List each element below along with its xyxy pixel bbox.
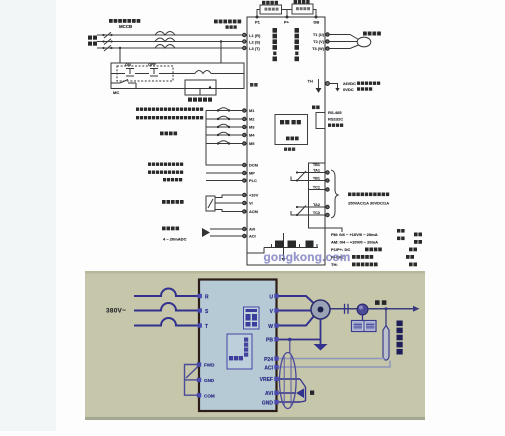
svg-text:P24: P24 — [264, 357, 273, 363]
terminal DB — [315, 16, 318, 19]
pin labels DI — [249, 108, 258, 183]
svg-text:L2 (S): L2 (S) — [249, 40, 261, 45]
pot terminals — [243, 193, 246, 213]
relay pin labels — [313, 163, 320, 215]
label 外送 — [375, 300, 386, 305]
svg-text:TB1: TB1 — [313, 163, 320, 167]
contactor coil MC — [195, 71, 211, 74]
svg-text:GND: GND — [204, 378, 215, 383]
left margin column — [0, 0, 56, 431]
terminal P1 — [256, 16, 259, 19]
svg-text:AM: 0/4 ~ +10V/0 ~ 20mA: AM: 0/4 ~ +10V/0 ~ 20mA — [331, 240, 378, 245]
svg-text:MP: MP — [249, 171, 255, 176]
pipe union ticks — [344, 304, 346, 314]
wire P+ to braking unit — [287, 9, 292, 11]
svg-text:250VAC/1A 30VDC/1A: 250VAC/1A 30VDC/1A — [348, 201, 389, 206]
meter block 3 — [306, 241, 314, 248]
label 显示 inside panel — [286, 137, 299, 141]
label 频率设定器 — [162, 200, 184, 204]
wire L3 phase — [97, 47, 243, 49]
DI1 wire — [206, 110, 243, 112]
feedback source triangle — [202, 228, 210, 237]
svg-text:TA2: TA2 — [313, 203, 320, 207]
label 操作面板 — [280, 120, 301, 124]
fuse double arcs on phases — [155, 32, 175, 49]
svg-text:0VDC: 0VDC — [343, 87, 354, 92]
svg-text:T1 (U): T1 (U) — [313, 32, 325, 37]
P24 signal wire — [279, 359, 385, 360]
wire tap right down — [220, 42, 222, 64]
relay output section — [291, 163, 342, 232]
label 压力变送器 vertical — [397, 321, 403, 355]
cable oval stem to PB wire — [289, 340, 291, 354]
svg-text:T2 (V): T2 (V) — [313, 39, 325, 44]
wire L1 phase — [97, 34, 243, 36]
potentiometer — [296, 389, 304, 399]
pin labels R S T — [205, 294, 209, 330]
label 浪涌吸收器 — [188, 98, 212, 102]
svg-text:RS-485: RS-485 — [328, 110, 342, 115]
wire braking resistor to P+ — [282, 10, 288, 18]
label 电动机 — [363, 32, 381, 36]
label 制动电阻 above BR1 — [262, 1, 278, 5]
svg-text:24VDC: 24VDC — [343, 81, 356, 86]
DI5 wire — [206, 143, 243, 145]
panel background — [85, 271, 425, 420]
svg-text:FM: 0/4 ~ +10V/0 ~ 20mA: FM: 0/4 ~ +10V/0 ~ 20mA — [331, 232, 378, 237]
button ON — [126, 68, 134, 70]
digital input rows — [206, 108, 243, 165]
meter block 1 — [275, 241, 284, 248]
strainer box — [352, 321, 377, 332]
label 选配 inside BR1 — [265, 8, 279, 11]
label M1 inside left edge — [250, 83, 253, 87]
MC aux contact — [111, 82, 120, 84]
svg-text:ACI: ACI — [264, 365, 273, 371]
pressure transmitter body — [383, 326, 389, 361]
svg-text:P1: P1 — [255, 20, 261, 25]
label 漏电保护断路器 MCCB — [109, 19, 140, 23]
emergency stop terminal — [326, 82, 330, 86]
PB wire to ground stem — [279, 339, 321, 341]
relay bus — [309, 163, 343, 232]
vertical text in control board — [244, 338, 248, 357]
breaker MCCB poles — [104, 32, 111, 51]
ACI signal wire — [279, 361, 390, 368]
operator panel box — [275, 115, 308, 145]
svg-text:gongkong.com: gongkong.com — [264, 250, 351, 264]
svg-text:PB: PB — [266, 338, 273, 344]
svg-text:OFF: OFF — [148, 62, 156, 67]
contact blade 1 — [291, 177, 297, 181]
svg-text:RS232C: RS232C — [328, 117, 343, 122]
input terminal L2 — [243, 40, 246, 43]
svg-text:+10V: +10V — [249, 193, 259, 198]
label 主控板 — [229, 356, 243, 360]
label 正转/停止运转信号 — [136, 108, 203, 111]
DI bus — [206, 111, 243, 166]
relay terminals — [326, 171, 329, 217]
pot label — [310, 391, 314, 395]
AVI wire — [279, 392, 296, 394]
output terminals U V W PB P24 ACI VREF AVI GND — [274, 294, 278, 404]
input wire S — [134, 303, 198, 311]
GND wire — [279, 401, 300, 403]
svg-text:W: W — [268, 324, 273, 330]
vertical label 电源输入端子 — [273, 28, 278, 61]
svg-text:380V~: 380V~ — [106, 308, 126, 315]
svg-text:TB1: TB1 — [313, 177, 320, 181]
ground symbol — [314, 344, 328, 351]
DI terminals — [243, 109, 246, 182]
svg-text:TH: TH — [308, 79, 313, 84]
transmitter stem — [385, 309, 387, 327]
svg-text:PLC: PLC — [249, 178, 257, 183]
inverter main box U1 — [247, 17, 325, 265]
input wire T — [134, 318, 198, 326]
label 反馈信号 — [162, 227, 179, 231]
input terminals R S T — [198, 294, 202, 328]
TA2 wire — [297, 206, 326, 208]
button OFF — [150, 68, 158, 70]
label PLC输入 — [148, 171, 183, 174]
cable lacing lines — [283, 356, 285, 405]
FWD GND COM terminals — [197, 362, 201, 397]
panel bottom edge — [85, 417, 425, 420]
svg-text:L1 (R): L1 (R) — [249, 33, 261, 38]
TB1 wire — [297, 180, 326, 182]
pin labels T1 T2 T3 — [312, 32, 325, 51]
braking unit box BU1 — [292, 4, 313, 14]
svg-text:L3 (T): L3 (T) — [249, 46, 261, 51]
svg-text:GND: GND — [262, 400, 274, 406]
output terminals U V W — [326, 33, 329, 50]
TC1 wire — [309, 189, 326, 191]
wire from AM terminal — [247, 248, 264, 254]
label 多段速端子 — [160, 132, 177, 136]
wire tap left down — [119, 48, 121, 63]
output pin labels — [260, 294, 274, 406]
terminal P+ — [286, 16, 289, 19]
svg-text:M2: M2 — [249, 117, 255, 122]
svg-text:M4: M4 — [249, 133, 255, 138]
relay contact dots — [296, 171, 298, 216]
legend rows — [331, 232, 378, 267]
pipe line — [330, 308, 416, 310]
control loop outline — [111, 63, 244, 89]
output wire W — [279, 317, 314, 326]
run switch bracket — [185, 365, 200, 396]
label 多功能继电器输出端子 — [348, 193, 389, 197]
DI switch arcs — [218, 108, 229, 111]
potentiometer frequency setter — [206, 195, 243, 212]
label above comm card — [312, 106, 320, 110]
input wire R — [134, 289, 198, 297]
label 电源连接端子 — [214, 20, 241, 29]
wires to motor — [329, 35, 358, 49]
svg-text:T: T — [205, 324, 208, 330]
wire P1 to braking resistor — [257, 10, 260, 18]
pump valve circle — [357, 304, 368, 315]
motor ground stem — [320, 319, 322, 344]
svg-text:DCM: DCM — [249, 163, 258, 168]
label 制动单元 above BU1 — [294, 0, 310, 4]
wire L2 phase — [97, 41, 243, 43]
pin labels FWD GND COM — [204, 363, 215, 399]
motor M — [311, 300, 330, 319]
wire right of estop — [330, 84, 338, 89]
svg-text:AVI: AVI — [249, 227, 255, 232]
label below panel — [284, 148, 295, 151]
main control board box — [227, 334, 252, 369]
svg-text:MCCB: MCCB — [119, 24, 132, 29]
svg-text:R: R — [205, 294, 209, 300]
svg-text:VREF: VREF — [260, 377, 273, 383]
svg-text:DB: DB — [314, 20, 320, 25]
MP input wire — [206, 172, 243, 174]
svg-text:COM: COM — [204, 393, 215, 398]
output wire V — [279, 310, 311, 312]
TC2 wire — [297, 214, 326, 216]
motor AC — [357, 37, 371, 47]
analog meter circuit — [247, 233, 318, 258]
svg-text:MC: MC — [113, 90, 119, 95]
control circuit loop — [111, 42, 244, 96]
label 主速度 — [163, 178, 182, 181]
jumper block box — [244, 307, 260, 329]
DI2 wire — [206, 118, 243, 120]
input terminal L1 — [243, 33, 246, 36]
DI3 wire — [206, 126, 243, 128]
strainer stem — [362, 314, 364, 321]
surge absorber box — [185, 80, 216, 95]
ground arrow left — [316, 79, 320, 92]
inverter box VFD — [199, 280, 277, 412]
svg-text:TC2: TC2 — [313, 211, 320, 215]
output wire U — [279, 296, 314, 303]
label 交流电源 AC source — [88, 36, 97, 46]
meter block 2 — [288, 241, 297, 248]
node on L3 for control tap — [119, 47, 121, 49]
svg-text:T3 (W): T3 (W) — [312, 46, 325, 51]
input terminal L3 — [243, 46, 246, 49]
svg-text:M3: M3 — [249, 125, 255, 130]
svg-text:FWD: FWD — [204, 363, 215, 368]
jumper block text — [246, 309, 258, 327]
svg-text:ACI: ACI — [249, 234, 256, 239]
svg-text:M1: M1 — [249, 108, 255, 113]
svg-text:ON: ON — [125, 62, 131, 67]
meter stem down — [283, 248, 285, 259]
TA1 wire — [297, 172, 326, 174]
legend cjk blobs — [352, 229, 422, 266]
node on L2 for control tap — [220, 40, 222, 42]
braking resistor box BR1 — [260, 5, 282, 14]
svg-text:4 ~ 20mADC: 4 ~ 20mADC — [163, 237, 187, 242]
pin labels +10V VI ACM — [249, 193, 259, 215]
labels RS-485 RS232 — [328, 110, 343, 122]
label 反转/停止运转信号 — [136, 116, 203, 119]
feedback terminals — [243, 227, 246, 237]
vertical label 电机连接端子 — [295, 28, 300, 61]
meter ticks — [272, 244, 318, 248]
svg-text:M5: M5 — [249, 141, 255, 146]
DI4 wire — [206, 134, 243, 136]
wire braking unit to DB — [313, 10, 316, 18]
pin labels AI — [249, 227, 256, 239]
meter bus — [264, 247, 318, 249]
label MP脉冲输入 — [148, 163, 183, 166]
svg-text:ACM: ACM — [249, 209, 258, 214]
svg-text:P+: P+ — [284, 20, 290, 25]
label 必选 inside BU1 — [296, 7, 310, 10]
meter stem up — [283, 233, 285, 241]
panel top shade — [85, 271, 425, 274]
feedback signal wires — [210, 229, 243, 236]
cable bundle oval — [280, 353, 297, 409]
VREF wire — [279, 378, 300, 380]
brace multifunction outputs — [331, 170, 338, 218]
PLC input wire — [206, 180, 243, 182]
svg-text:U: U — [269, 294, 273, 300]
rung wire — [111, 73, 125, 75]
svg-text:TA1: TA1 — [313, 169, 320, 173]
svg-text:TC1: TC1 — [313, 186, 320, 190]
comm option card box — [316, 113, 325, 129]
svg-text:VI: VI — [249, 201, 253, 206]
run/stop buttons dashed box — [117, 66, 173, 81]
svg-text:AVI: AVI — [265, 391, 274, 397]
